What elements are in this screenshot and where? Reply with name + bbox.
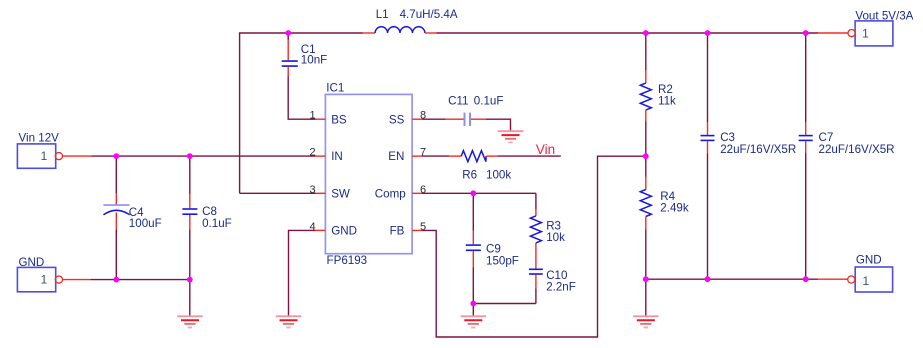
- node C7 bottom: [803, 276, 809, 282]
- wire bottom right ground rail: [646, 278, 818, 280]
- svg-text:3: 3: [309, 184, 315, 196]
- wire C9 bottom to ground: [472, 304, 474, 317]
- resistor R4: [640, 156, 689, 279]
- wire R6 to Vin net: [498, 155, 561, 157]
- svg-text:0.1uF: 0.1uF: [202, 217, 232, 230]
- svg-text:FP6193: FP6193: [327, 254, 368, 267]
- svg-text:R6: R6: [462, 168, 477, 181]
- IC U1 FP6193: [325, 81, 412, 267]
- pin 6 stub: [412, 192, 422, 194]
- ground below C9: [461, 316, 486, 327]
- node R2 top: [643, 30, 649, 36]
- svg-text:EN: EN: [388, 150, 404, 163]
- capacitor C1: [282, 33, 328, 76]
- inductor L1: [363, 8, 458, 33]
- wire pin 7 EN to R6: [422, 155, 449, 157]
- wire C10 bottom to C9 bottom: [473, 303, 536, 305]
- svg-text:Comp: Comp: [375, 187, 406, 200]
- wire C8 to ground: [189, 280, 191, 317]
- svg-text:C11: C11: [448, 95, 468, 108]
- node C9 bottom: [470, 301, 476, 307]
- capacitor C7: [799, 33, 895, 279]
- svg-text:5: 5: [420, 221, 426, 233]
- svg-text:1: 1: [41, 273, 48, 287]
- svg-text:10k: 10k: [546, 231, 565, 244]
- svg-text:0.1uF: 0.1uF: [474, 95, 504, 108]
- node C8 top: [187, 153, 193, 159]
- svg-text:4: 4: [309, 221, 315, 233]
- svg-text:100k: 100k: [486, 168, 511, 181]
- node C4 bottom: [113, 277, 119, 283]
- svg-text:100uF: 100uF: [129, 217, 162, 230]
- svg-text:L1: L1: [376, 8, 389, 21]
- svg-text:2.2nF: 2.2nF: [546, 281, 576, 294]
- pin 7 stub: [412, 155, 422, 157]
- wire SW pin 3 to riser: [240, 192, 316, 194]
- svg-text:GND: GND: [856, 254, 882, 267]
- wire top rail right of L1: [437, 32, 819, 34]
- node C1 top: [285, 30, 291, 36]
- node Comp C9: [470, 190, 476, 196]
- resistor R3: [530, 193, 565, 268]
- svg-text:IN: IN: [331, 150, 343, 163]
- node C3 top: [705, 30, 711, 36]
- svg-text:Vin: Vin: [536, 142, 555, 157]
- pin 1 stub: [316, 118, 326, 120]
- capacitor C9: [466, 193, 519, 303]
- wire Vin rail to pin 2: [92, 155, 316, 157]
- node FB divider: [643, 153, 649, 159]
- svg-text:SW: SW: [331, 187, 350, 200]
- svg-text:FB: FB: [390, 225, 405, 238]
- wire C1 bottom to pin 1: [288, 76, 315, 119]
- pin 8 stub: [412, 118, 422, 120]
- pin 4 stub: [316, 229, 326, 231]
- port Vout 5V/3A: [818, 9, 914, 46]
- pin 5 stub: [412, 229, 422, 231]
- capacitor C4: [103, 156, 161, 280]
- capacitor C3: [701, 33, 797, 279]
- svg-text:1: 1: [862, 27, 869, 41]
- svg-text:4.7uH/5.4A: 4.7uH/5.4A: [400, 8, 458, 21]
- svg-text:22uF/16V/X5R: 22uF/16V/X5R: [720, 143, 796, 156]
- svg-text:2: 2: [309, 147, 315, 159]
- node junction dots: [113, 30, 808, 306]
- svg-text:10nF: 10nF: [301, 54, 327, 67]
- node C7 top: [803, 30, 809, 36]
- ground below R4: [633, 316, 658, 327]
- pin 3 stub: [316, 192, 326, 194]
- svg-text:GND: GND: [331, 225, 357, 238]
- pin 2 stub: [316, 155, 326, 157]
- node R4 bottom: [643, 276, 649, 282]
- wire pin 4 GND to ground: [289, 230, 316, 316]
- svg-text:1: 1: [41, 149, 48, 163]
- port GND right: [818, 254, 893, 292]
- svg-text:SS: SS: [389, 113, 405, 126]
- wire pin 6 Comp: [422, 192, 536, 194]
- wire pin 5 FB feedback loop: [422, 156, 646, 337]
- wire R4 to ground: [645, 279, 647, 316]
- wire C11 to ground: [486, 119, 511, 131]
- node C8 bottom: [187, 277, 193, 283]
- ground below C11: [498, 131, 523, 142]
- resistor R2: [640, 33, 676, 156]
- svg-text:150pF: 150pF: [486, 254, 519, 267]
- ground below C8: [177, 316, 202, 327]
- svg-text:11k: 11k: [658, 95, 676, 108]
- svg-text:BS: BS: [331, 113, 347, 126]
- wire pin 8 SS to C11: [422, 118, 446, 120]
- ground below pin 4: [276, 316, 301, 327]
- node C4 top: [113, 153, 119, 159]
- svg-text:IC1: IC1: [326, 81, 344, 94]
- capacitor C10: [529, 269, 576, 304]
- svg-text:22uF/16V/X5R: 22uF/16V/X5R: [819, 143, 895, 156]
- capacitor C8: [182, 156, 231, 280]
- svg-text:2.49k: 2.49k: [660, 202, 689, 215]
- svg-text:Vin 12V: Vin 12V: [19, 132, 60, 145]
- port GND left: [17, 256, 90, 292]
- port Vin 12V: [17, 132, 91, 169]
- resistor R6: [449, 151, 511, 182]
- capacitor C11: [446, 95, 504, 127]
- wire left ground rail: [91, 279, 190, 281]
- node C3 bottom: [705, 276, 711, 282]
- svg-text:1: 1: [862, 274, 869, 288]
- wire top rail from SW riser to output: [240, 33, 363, 193]
- svg-text:1: 1: [309, 110, 315, 122]
